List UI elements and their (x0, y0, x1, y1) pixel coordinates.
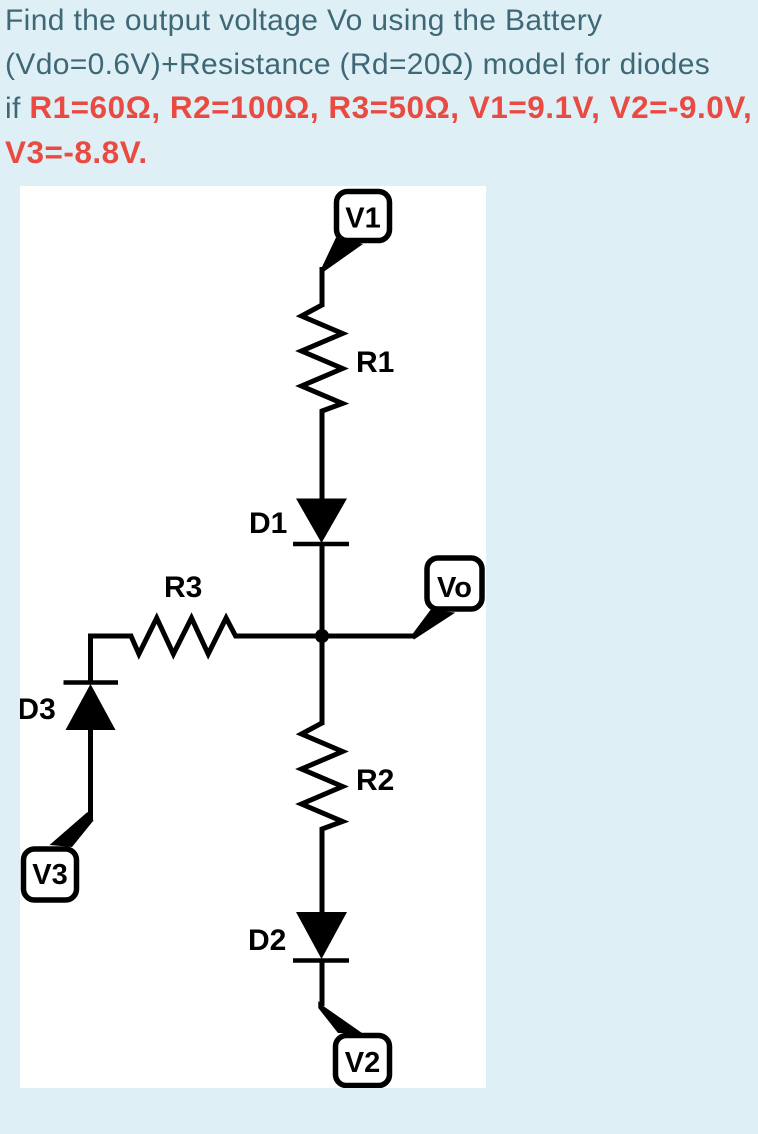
header problem text (5, 0, 758, 175)
svg-text:R2: R2 (356, 764, 394, 797)
resistor R3 (125, 618, 242, 654)
diode D2 (293, 912, 349, 961)
terminal flag V1 (322, 238, 363, 274)
schematic panel (20, 186, 486, 1088)
wire R3 to D3 with corner (91, 636, 134, 683)
wire node A to R3 (236, 634, 324, 639)
resistor R2 (302, 717, 343, 835)
diode D3 (64, 683, 119, 731)
wire V1 terminal to R1 (320, 267, 325, 307)
svg-text:D2: D2 (248, 924, 286, 957)
wire R2 to D2 (320, 832, 325, 914)
diode D1 (293, 499, 349, 545)
terminal flag V3 (50, 812, 94, 847)
wire R1 to D1 (320, 414, 325, 500)
svg-text:V3: V3 (32, 859, 67, 891)
svg-text:R1: R1 (356, 346, 394, 379)
svg-text:D3: D3 (20, 693, 56, 726)
wire D3 to V3 terminal (88, 730, 93, 820)
svg-text:R3: R3 (164, 571, 202, 604)
terminal V1 (337, 192, 390, 241)
resistor R1 (302, 300, 343, 417)
svg-text:Vo: Vo (437, 572, 472, 604)
terminal Vo (427, 558, 482, 609)
wire node A to R2 (320, 634, 325, 725)
terminal flag V2 (318, 1001, 362, 1033)
svg-text:V1: V1 (345, 203, 380, 235)
wire D2 to V2 terminal (320, 960, 325, 1006)
wire D1 to node A (320, 544, 325, 638)
terminal flag Vo (411, 610, 455, 640)
svg-text:D1: D1 (249, 507, 287, 540)
terminal V3 (24, 849, 77, 900)
wire node A to Vo terminal (320, 634, 414, 639)
terminal V2 (336, 1036, 390, 1086)
node junction dot (315, 629, 329, 643)
svg-text:V2: V2 (345, 1047, 380, 1079)
